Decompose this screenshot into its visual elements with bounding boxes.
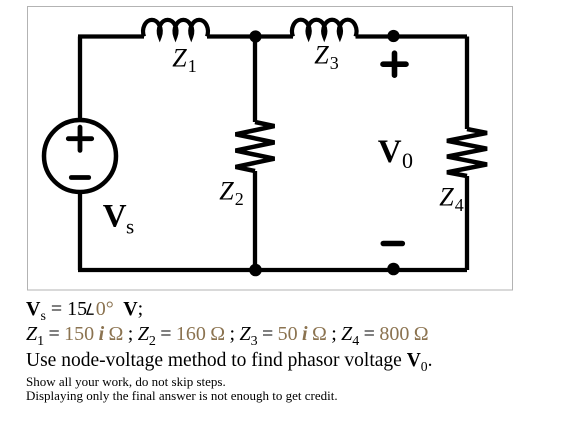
svg-text:Z: Z <box>219 177 234 206</box>
svg-text:V: V <box>378 134 402 170</box>
svg-text:Z: Z <box>439 183 454 212</box>
svg-text:0: 0 <box>402 148 413 173</box>
svg-text:V: V <box>103 198 127 234</box>
svg-text:Z: Z <box>172 44 187 73</box>
svg-text:Z: Z <box>314 41 329 70</box>
svg-text:2: 2 <box>235 189 244 209</box>
svg-text:1: 1 <box>188 56 197 76</box>
svg-text:3: 3 <box>330 53 339 73</box>
svg-text:s: s <box>126 215 134 239</box>
svg-text:4: 4 <box>455 195 464 215</box>
